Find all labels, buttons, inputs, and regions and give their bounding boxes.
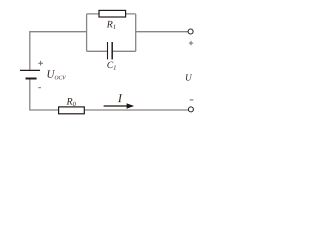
top terminal plus sign <box>189 41 193 45</box>
wire: left vertical below battery to bottom wire <box>30 79 59 110</box>
output voltage label U <box>186 74 192 80</box>
resistor R1 label <box>107 21 116 29</box>
resistor R0 <box>59 107 85 114</box>
wire: bottom from R0 to bottom terminal <box>84 109 188 111</box>
current arrow I <box>104 103 135 108</box>
resistor R1 <box>99 10 126 17</box>
battery U_OCV top plate (+) <box>20 69 40 71</box>
wire: resistor branch leads <box>87 13 136 15</box>
wire: left bracket of RC parallel block <box>86 14 88 51</box>
top terminal node <box>188 29 193 34</box>
capacitor C1 label <box>107 62 115 70</box>
wire: right bracket of RC parallel block <box>135 14 137 51</box>
battery plus sign <box>38 61 43 66</box>
wire: capacitor branch leads <box>87 50 136 52</box>
current label I <box>118 94 123 102</box>
wire: main right from RC block to top terminal <box>136 31 189 33</box>
battery label U_OCV <box>48 70 67 79</box>
battery minus sign <box>38 87 41 89</box>
battery U_OCV bottom plate (-) <box>26 78 37 80</box>
wire: left vertical + top horizontal to RC block <box>30 32 87 70</box>
resistor R0 label <box>66 98 75 106</box>
capacitor C1 <box>108 42 113 59</box>
bottom terminal minus sign <box>190 99 194 101</box>
bottom terminal node <box>188 107 193 112</box>
